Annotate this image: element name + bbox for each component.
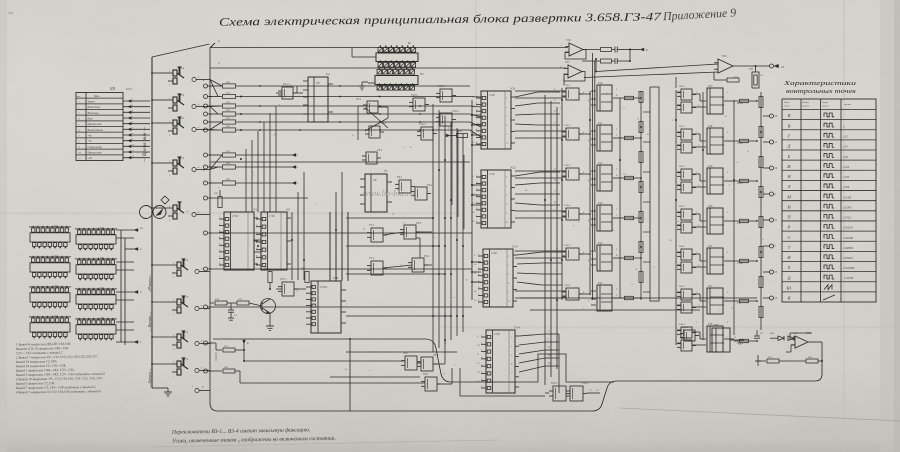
wire R16 row — [236, 129, 470, 131]
ic У28 chain2 — [707, 128, 723, 154]
resistor ladder2 R6 — [759, 277, 763, 288]
edge contact circles — [204, 84, 208, 88]
scan noise overlay — [0, 0, 1, 1]
wire gate-block 2 chain1 — [579, 133, 591, 135]
fan wires counter U12 — [515, 172, 540, 176]
ic У27 chain2 — [707, 88, 723, 114]
gate U13-2 — [570, 386, 583, 401]
wire gate-block 3 chain1 — [579, 173, 591, 175]
counter U38 CT10 — [311, 281, 341, 333]
counter U2 CT2 — [261, 212, 287, 270]
fan wires counter U13 — [517, 252, 542, 255]
gate U6-2 — [415, 187, 427, 200]
resistor ladder1 R4 — [639, 212, 643, 223]
counter vertical feed bus — [471, 100, 473, 300]
resistor R16 — [210, 129, 222, 131]
gate У19-3 — [566, 168, 579, 180]
table row С — [782, 230, 876, 232]
gate У40-2a — [681, 129, 692, 140]
gate У19-5 — [566, 248, 579, 260]
table row Л — [782, 179, 876, 181]
ic У27 chain2 — [707, 208, 723, 234]
resistor ladder2 R0 — [759, 97, 763, 108]
wire bus right of connector blocks — [120, 230, 122, 342]
counter U12 CT2 — [481, 170, 511, 228]
mottle blotches — [0, 0, 1, 1]
gate U7-1 — [371, 228, 383, 242]
wire bundle center horizontals — [346, 217, 433, 219]
gate У40-3b — [681, 182, 692, 193]
notes text block — [16, 342, 71, 348]
resistor ladder2 R2 — [759, 157, 763, 168]
resistor R10 vertical — [218, 197, 222, 208]
table row Р — [782, 220, 876, 222]
wires U1-U2 links — [254, 239, 261, 241]
crease diagonal bottom right — [620, 408, 900, 421]
wire chain2 cell 3 — [692, 213, 700, 215]
control point circles right — [770, 114, 774, 118]
resistor ladder1 R0 — [639, 92, 643, 103]
gate У40-5b — [681, 262, 692, 273]
ic У23 — [597, 205, 612, 231]
diamond symbol — [161, 196, 169, 204]
wire gate-block 5 chain1 — [579, 253, 591, 255]
wire R14 row to gates — [235, 370, 240, 372]
junction dots assorted — [471, 114, 473, 116]
wire chain2 cell 0 — [692, 93, 700, 95]
vertical drops from RC row — [592, 53, 594, 300]
resistor ladder1 R2 — [639, 152, 643, 163]
bottom notes line 2 — [172, 435, 336, 445]
vertical wires chains top feed — [563, 78, 565, 85]
counter U14 CT2 — [486, 330, 515, 393]
ic U33 — [712, 328, 730, 352]
ground bottom-left — [152, 387, 168, 389]
op-amp U16 — [569, 43, 583, 56]
resistor R13 — [210, 105, 222, 107]
table row Ж — [782, 159, 876, 161]
wire R13 row — [236, 105, 470, 107]
op-amp U17 — [568, 65, 582, 78]
wire R12 row — [236, 96, 470, 98]
lamp HL1 — [140, 206, 153, 219]
gate У40-3a — [681, 169, 692, 180]
gate У40-4a — [681, 209, 692, 220]
wires bottom gates to U14 — [417, 362, 421, 364]
ladder1 tall rect — [650, 87, 659, 301]
resistor R15 — [210, 121, 222, 123]
fan wires counter U11 — [515, 92, 538, 97]
gate У40-1a — [681, 89, 692, 100]
resistor R14 — [210, 113, 222, 115]
ground bar left of R23 — [757, 355, 759, 366]
wire U5-1 to U4 — [293, 92, 303, 94]
resistor ladder2 R1 — [759, 127, 763, 138]
resistor row 2 after U17 — [582, 60, 600, 62]
top bus wire 9 — [210, 47, 568, 49]
gate U15-2 — [421, 357, 433, 371]
arrow out g — [134, 341, 138, 344]
gate U13-1 — [553, 386, 566, 401]
gate U6-1 — [399, 180, 411, 193]
gate U3-4 — [366, 152, 377, 164]
V-fork diagonals from switch circles — [210, 80, 222, 87]
table row В — [782, 119, 876, 121]
ic У27 chain2 — [707, 326, 723, 352]
resistor R17 — [210, 154, 222, 156]
resistor R14 — [210, 302, 214, 304]
capacitor C2 right — [756, 330, 758, 336]
wire long horizontal y310 — [530, 309, 700, 311]
arrow out a — [134, 229, 138, 232]
wire long horizontal y298 — [520, 297, 757, 299]
wire chain2 cell 4 — [692, 253, 700, 255]
gate У40-2b — [681, 142, 692, 153]
wire R19 row — [236, 182, 292, 184]
wire bundle center vertical — [432, 104, 434, 352]
ic У28 chain2 — [707, 248, 723, 274]
vertical wires from U1/U2 up to resistor rows — [245, 149, 247, 212]
gate U15-3 — [425, 377, 437, 391]
fold crease horizontal right — [440, 326, 900, 329]
wire U37-1 to U38 — [294, 288, 306, 290]
block boundary outline — [210, 43, 822, 411]
op-amp U36 output — [808, 341, 822, 343]
wire switch V3-3 to bus — [152, 99, 168, 101]
counter U11 CT2 — [481, 91, 511, 149]
op-amp U34 output arrow 10 — [733, 65, 770, 67]
wire U36 inverting input — [790, 338, 795, 340]
wires U14 fan continuation — [545, 333, 559, 335]
gate U10-2 — [421, 127, 433, 140]
wire gate-block 6 chain1 — [579, 293, 591, 295]
chain1 vertical link wires — [561, 88, 563, 300]
wire chain2 cell 5 — [692, 293, 700, 295]
wire fan into counter U11 — [470, 96, 481, 99]
ic У29 chain2 — [707, 168, 723, 194]
table row М — [782, 190, 876, 192]
gate У40-7a — [681, 327, 692, 338]
ic У29 chain2 — [707, 288, 723, 314]
wire В1-1 to bus — [152, 363, 172, 365]
capacitor C1 ground — [228, 317, 234, 319]
gate U3-3 — [369, 126, 380, 138]
table row Н — [782, 200, 876, 202]
gate U43-4 — [684, 330, 695, 341]
diode K26 — [778, 336, 784, 340]
gate U15-1 — [405, 356, 417, 370]
wire feedback bottom loop — [460, 395, 545, 397]
gate У40-4b — [681, 222, 692, 233]
resistor ladder2 R5 — [759, 247, 763, 258]
ic У25 — [597, 285, 612, 311]
counter U13 CT2 — [483, 249, 513, 307]
top bus wire 4 — [210, 67, 566, 69]
wire R11 row — [236, 85, 470, 87]
transistor emitter ground — [269, 313, 271, 326]
fold crease horizontal left — [0, 212, 460, 215]
table row Г — [782, 129, 876, 131]
wires bottom gate cluster — [210, 351, 224, 353]
wire verticals center-left bundle — [291, 212, 293, 280]
title text — [219, 11, 663, 28]
wire rows from left edge — [210, 161, 470, 163]
gate У40-5a — [681, 249, 692, 260]
crease diagonal bottom left — [150, 440, 500, 447]
table row Ц — [782, 271, 876, 273]
connector contact arrows — [123, 100, 150, 102]
gate U10-3 — [440, 89, 452, 102]
lamp HL2 with arrow — [153, 206, 166, 219]
wire R18 row — [236, 166, 292, 168]
op-amp U17 feedback — [564, 72, 585, 82]
wire В1-3 to bus — [152, 301, 172, 303]
op-amp U16 feedback — [565, 50, 586, 60]
ic У22 — [597, 165, 612, 191]
gate U7-2 — [371, 261, 383, 275]
bus wires to op-amp U34 — [596, 64, 718, 72]
wire chain2 cell 6 — [692, 331, 700, 333]
wires counters to chain gates — [515, 90, 562, 92]
table row И — [782, 169, 876, 171]
wires U7 cluster — [383, 232, 404, 235]
op-amp U36 — [795, 336, 808, 348]
ladder1 horizontal taps — [643, 111, 650, 113]
resistor ladder2 R3 — [759, 187, 763, 198]
wire chain2 cell 1 — [692, 133, 700, 135]
resistor ladder1 R6 — [639, 272, 643, 283]
gate U10-1 — [413, 98, 425, 111]
gate У19-1 — [566, 88, 579, 100]
gate U5-1 — [282, 87, 293, 99]
resistor R11 — [210, 85, 222, 87]
capacitor C1 — [230, 303, 232, 310]
table row Е — [782, 149, 876, 151]
resistor ladder1 R5 — [639, 242, 643, 253]
ic У21 — [597, 125, 612, 151]
arrow output 8 — [629, 49, 631, 51]
paper right edge shading — [880, 0, 900, 452]
bus taps dots left — [151, 72, 153, 74]
wire U33 to output — [730, 339, 744, 341]
table row Ю — [782, 281, 876, 283]
resistor R24 — [806, 359, 818, 363]
chain2 vertical link wires — [675, 90, 677, 345]
wire U13 output — [587, 392, 600, 394]
ic У20 — [597, 85, 612, 111]
table row П — [782, 210, 876, 212]
resistor R23 — [758, 360, 766, 362]
contact circle 1-0 — [195, 388, 199, 392]
annex label Приложение 9 — [662, 5, 737, 23]
fold crease vertical — [475, 0, 477, 120]
wire R17 row — [236, 154, 292, 156]
control points table — [782, 99, 876, 302]
junction dots on long rows — [259, 85, 261, 87]
counter U1 CT2 — [224, 212, 254, 270]
gate У40-6a — [681, 289, 692, 300]
cross wires U3 — [358, 105, 363, 107]
fan wires counter U14 — [519, 334, 545, 336]
gate U37-1 — [282, 282, 294, 296]
paper left edge shading — [0, 0, 7, 452]
gate У40-1b — [681, 102, 692, 113]
wire bundle left of U38 vertical — [329, 212, 331, 281]
trigger U4 TT — [308, 77, 328, 122]
extra horizontal taps chain2 to ladder2 — [734, 100, 757, 102]
table row Х — [782, 260, 876, 262]
resistor R14 bottom — [210, 370, 222, 372]
gate U8-3 — [404, 225, 416, 239]
bottom notes line 1 — [171, 426, 311, 435]
resistor R19a with arrow — [457, 134, 468, 138]
ground near connector Yu — [362, 81, 368, 83]
wire R14 row — [236, 113, 470, 115]
resistor R18 — [210, 166, 222, 168]
junction dots resistor rows — [240, 96, 242, 98]
capacitor after U16 — [612, 49, 616, 51]
table row Я — [782, 291, 876, 293]
table row Т — [782, 240, 876, 242]
gate У19-2 — [566, 128, 579, 140]
gate U3-1 — [367, 101, 378, 113]
wire В1-4 to bus — [152, 264, 172, 266]
trigger U7 TT — [365, 174, 387, 212]
connector table ShI — [76, 93, 123, 161]
wire R13 row to gates — [215, 352, 217, 361]
gate U10-4 — [440, 113, 452, 126]
junction dots center — [432, 217, 434, 219]
table row Д — [782, 139, 876, 141]
wire gate-block 4 chain1 — [579, 213, 591, 215]
resistor R16 vertical — [305, 272, 309, 283]
resistor after U16 — [583, 49, 600, 51]
wire switch V3-2 to bus — [152, 122, 168, 124]
resistor R15 vertical — [268, 272, 272, 283]
arrow out v — [134, 291, 138, 294]
diode K2V — [788, 336, 794, 340]
gate У40-7b — [681, 340, 692, 351]
vertical feed lines near counters — [451, 122, 453, 205]
wire switch V3-1 to bus — [152, 162, 168, 164]
gate У40-6b — [681, 302, 692, 313]
inner boundary wire around U38 — [213, 339, 614, 382]
wire R15 row — [236, 121, 470, 123]
wire gate-block 1 chain1 — [579, 93, 591, 95]
ic У24 — [597, 245, 612, 271]
wire connector I to bus — [352, 56, 376, 58]
op-amp U34 — [718, 59, 733, 73]
table row Ф — [782, 250, 876, 252]
resistor ladder1 R3 — [639, 182, 643, 193]
wire switch V3-4 to bus — [152, 72, 168, 74]
resistor R22 — [727, 78, 739, 82]
gate U8-4 — [412, 258, 424, 272]
transistor T1 — [261, 299, 276, 314]
gate У19-6 — [566, 288, 579, 300]
wire U14 bottom loop — [330, 376, 420, 378]
resistor ladder2 R4 — [759, 217, 763, 228]
resistor R12 — [237, 301, 249, 305]
wire switch V2 — [152, 207, 168, 209]
extra horizontal taps chains to ladder1 — [622, 97, 641, 99]
resistor R12 — [210, 96, 222, 98]
arrow out b — [134, 248, 138, 251]
wire В1-2 to bus — [152, 336, 172, 338]
resistor R13 bottom — [210, 342, 216, 344]
wire vertical bus Vremya — [151, 57, 153, 388]
resistor ladder2 R7 — [759, 307, 763, 318]
resistor U35 vertical — [752, 72, 759, 88]
resistor ladder1 R1 — [639, 122, 643, 133]
gate У19-4 — [566, 208, 579, 220]
wire chain2 cell 2 — [692, 173, 700, 175]
wire verticals mid fan bundle — [544, 95, 546, 385]
resistor R19 — [210, 182, 222, 184]
